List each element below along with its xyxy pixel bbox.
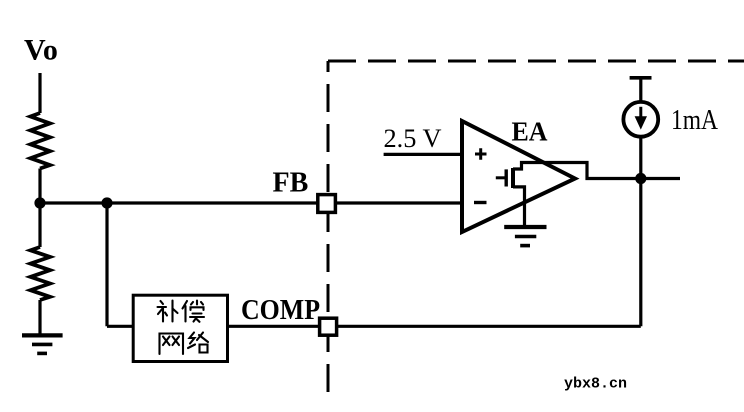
svg-text:2.5 V: 2.5 V [384,124,442,153]
svg-text:FB: FB [273,168,309,199]
svg-text:COMP: COMP [241,295,320,326]
svg-text:EA: EA [512,117,548,147]
svg-text:ybx8.cn: ybx8.cn [564,376,627,393]
svg-text:Vo: Vo [24,33,58,66]
svg-text:1mA: 1mA [671,105,719,136]
